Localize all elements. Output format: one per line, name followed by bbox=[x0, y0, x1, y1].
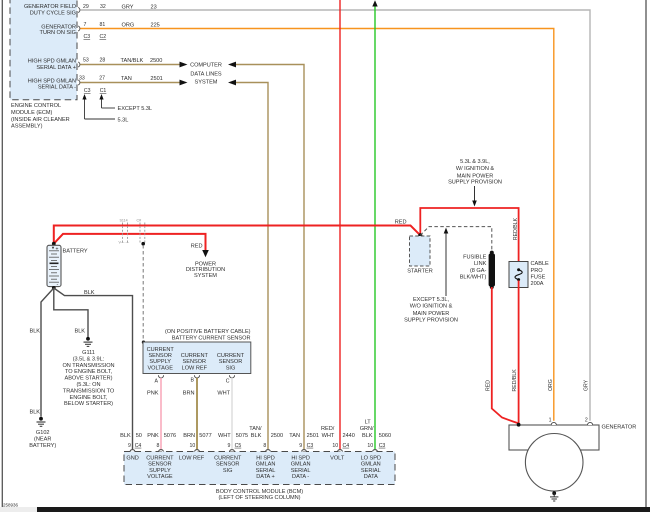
pin number 2 bbox=[585, 417, 588, 423]
svg-text:258936: 258936 bbox=[3, 503, 19, 508]
svg-text:LO SPD: LO SPD bbox=[361, 455, 381, 461]
svg-text:GRN/: GRN/ bbox=[360, 426, 374, 432]
label G102 (NEAR BATTERY) bbox=[29, 430, 56, 449]
svg-text:SERIAL DATA +: SERIAL DATA + bbox=[36, 65, 76, 71]
svg-text:5060: 5060 bbox=[379, 433, 391, 439]
svg-text:WHT: WHT bbox=[217, 390, 230, 396]
BCM pin 10 C4 bbox=[332, 443, 349, 449]
svg-text:C1: C1 bbox=[100, 88, 107, 94]
svg-text:LOW REF: LOW REF bbox=[179, 455, 205, 461]
svg-text:SENSOR: SENSOR bbox=[219, 359, 243, 365]
svg-text:MODULE (ECM): MODULE (ECM) bbox=[11, 110, 53, 116]
svg-text:ENGINE CONTROL: ENGINE CONTROL bbox=[11, 103, 61, 109]
svg-text:2501: 2501 bbox=[307, 433, 319, 439]
svg-text:8: 8 bbox=[157, 443, 160, 449]
svg-text:TURN ON SIG: TURN ON SIG bbox=[40, 30, 76, 36]
svg-text:TAN: TAN bbox=[289, 433, 300, 439]
svg-text:5.3L: 5.3L bbox=[118, 117, 129, 123]
label PNK bbox=[147, 390, 159, 396]
BCM pin 9 C3 bbox=[299, 443, 313, 449]
footer id number bbox=[3, 503, 19, 508]
svg-text:BRN: BRN bbox=[183, 390, 195, 396]
BCM label CURRENT SENSOR SUPPLY VOLTAGE bbox=[146, 455, 174, 480]
BCM pin 8 (tan/blk) bbox=[263, 443, 266, 449]
label CABLE PRO FUSE 200A bbox=[531, 261, 550, 287]
wire labels RED/WHT 2440 bbox=[321, 426, 355, 439]
label RED left of starter bbox=[395, 219, 407, 225]
svg-text:BRN: BRN bbox=[183, 433, 195, 439]
sensor connector arc pin C bbox=[229, 375, 234, 378]
wire LT GRN/BLK 5060 vertical to BCM bbox=[374, 4, 376, 449]
svg-text:9: 9 bbox=[299, 443, 302, 449]
svg-text:ENGINE BOLT,: ENGINE BOLT, bbox=[70, 395, 108, 401]
ECM connector arc pin 53 bbox=[78, 62, 80, 67]
svg-text:50: 50 bbox=[136, 433, 142, 439]
BCM connector arc lo spd bbox=[373, 450, 378, 452]
sensor label CURRENT SENSOR SUPPLY VOLTAGE bbox=[147, 347, 175, 371]
svg-text:FUSIBLE: FUSIBLE bbox=[463, 254, 486, 260]
svg-text:STARTER: STARTER bbox=[407, 268, 432, 274]
svg-text:32: 32 bbox=[100, 4, 106, 10]
svg-text:SERIAL: SERIAL bbox=[361, 468, 381, 474]
svg-text:8: 8 bbox=[263, 443, 266, 449]
BCM connector arc low ref bbox=[195, 450, 200, 452]
BCM label CURRENT SENSOR SIG bbox=[214, 455, 242, 474]
svg-text:SERIAL DATA -: SERIAL DATA - bbox=[38, 85, 76, 91]
svg-text:BATTERY CURRENT SENSOR: BATTERY CURRENT SENSOR bbox=[172, 336, 251, 342]
wire labels BLK 50 bbox=[120, 433, 142, 439]
svg-text:23: 23 bbox=[151, 4, 157, 10]
label WHT bbox=[217, 390, 230, 396]
svg-text:BELOW STARTER): BELOW STARTER) bbox=[64, 401, 113, 407]
svg-text:GENERATOR FIELD: GENERATOR FIELD bbox=[24, 4, 76, 10]
battery B1 bbox=[47, 245, 61, 287]
svg-text:TAN/BLK: TAN/BLK bbox=[121, 58, 144, 64]
wire TAN/BLK 2500 from ECM to computer data lines bbox=[80, 64, 182, 66]
svg-text:BLK: BLK bbox=[74, 328, 85, 334]
svg-text:BLK: BLK bbox=[29, 328, 40, 334]
generator case ground bbox=[550, 491, 558, 501]
svg-text:A: A bbox=[155, 378, 159, 384]
svg-text:SENSOR: SENSOR bbox=[183, 359, 207, 365]
svg-text:(LEFT OF STEERING COLUMN): (LEFT OF STEERING COLUMN) bbox=[218, 495, 300, 501]
svg-text:SUPPLY PROVISION: SUPPLY PROVISION bbox=[404, 318, 458, 324]
svg-text:C2: C2 bbox=[100, 34, 107, 40]
wire PNK 5076 sensor to BCM bbox=[160, 378, 162, 450]
wire labels WHT 5075 bbox=[218, 433, 248, 439]
callout arrow 5.3L bbox=[82, 94, 128, 123]
label RED/BLK upper rotated bbox=[513, 217, 519, 240]
pin numbers 29 32 GRY 23 bbox=[83, 4, 157, 11]
svg-text:HIGH SPD GMLAN: HIGH SPD GMLAN bbox=[28, 59, 76, 65]
node junction on lower red wire at connector bbox=[141, 242, 145, 246]
label FUSIBLE LINK (8 GA-BLK/WHT) bbox=[460, 254, 487, 280]
BCM pin 8 (pnk) bbox=[157, 443, 160, 449]
svg-text:RED: RED bbox=[485, 380, 491, 391]
svg-text:2440: 2440 bbox=[343, 433, 355, 439]
wire labels BRN 5077 bbox=[183, 433, 211, 439]
BCM label LOW REF bbox=[179, 455, 205, 461]
label 5.3L & 3.9L W/ IGNITION & MAIN POWER SUPPLY PROVISION bbox=[448, 159, 502, 185]
wire labels PNK 5076 bbox=[147, 433, 176, 439]
svg-text:LOW REF: LOW REF bbox=[182, 365, 208, 371]
wire RED/BLK fuse to generator bbox=[518, 281, 520, 424]
svg-text:TAN: TAN bbox=[121, 76, 132, 82]
svg-text:DATA -: DATA - bbox=[292, 474, 309, 480]
pin numbers 33 27 TAN 2501 bbox=[79, 76, 163, 83]
svg-text:HIGH SPD GMLAN: HIGH SPD GMLAN bbox=[28, 78, 76, 84]
cable pro fuse 200A box bbox=[509, 262, 528, 288]
wire RED fusible link to generator bbox=[492, 287, 519, 423]
svg-text:LINK: LINK bbox=[474, 261, 487, 267]
svg-text:COMPUTER: COMPUTER bbox=[190, 63, 222, 69]
svg-text:DUTY CYCLE SIG: DUTY CYCLE SIG bbox=[30, 11, 76, 17]
fusible link F1 bbox=[489, 251, 495, 289]
generator rotor circle bbox=[525, 434, 583, 492]
svg-text:VOLTAGE: VOLTAGE bbox=[147, 474, 173, 480]
wire GRY 23 from ECM to generator pin 2 bbox=[80, 10, 591, 421]
ground G111 bbox=[84, 337, 93, 347]
BCM pin 10 C3 bbox=[367, 443, 385, 449]
wire WHT 5075 sensor to BCM bbox=[231, 378, 233, 450]
ECM connector arc pin 29 bbox=[78, 8, 80, 13]
svg-text:GMLAN: GMLAN bbox=[256, 462, 276, 468]
svg-text:5076: 5076 bbox=[164, 433, 176, 439]
label BLK on G111 wire bbox=[74, 328, 85, 334]
BCM pin 9 C5 bbox=[228, 443, 242, 449]
label BLK on G102 wire upper bbox=[29, 328, 40, 334]
svg-text:WHT: WHT bbox=[218, 433, 231, 439]
BCM module box bbox=[124, 452, 395, 485]
wire BLK battery to BCM GND bbox=[54, 288, 133, 449]
label STARTER bbox=[407, 268, 432, 274]
svg-text:VOLTAGE: VOLTAGE bbox=[147, 365, 173, 371]
svg-text:(NEAR: (NEAR bbox=[34, 436, 51, 442]
ECM connector arc pin 7 bbox=[78, 26, 80, 31]
svg-text:SUPPLY: SUPPLY bbox=[149, 359, 171, 365]
callout arrow EXCEPT 5.3L bbox=[99, 94, 152, 112]
svg-text:10: 10 bbox=[190, 443, 196, 449]
ECM pin labels GENERATOR FIELD DUTY CYCLE SIG bbox=[24, 4, 76, 17]
label RED at power distribution bbox=[191, 244, 203, 250]
svg-text:W/ IGNITION &: W/ IGNITION & bbox=[456, 166, 495, 172]
svg-text:DATA +: DATA + bbox=[256, 474, 274, 480]
svg-text:7: 7 bbox=[84, 22, 87, 28]
BCM connector arc volt bbox=[338, 450, 343, 452]
svg-text:SERIAL: SERIAL bbox=[256, 468, 276, 474]
svg-text:SENSOR: SENSOR bbox=[148, 353, 172, 359]
svg-text:+: + bbox=[56, 247, 59, 253]
svg-text:(ON POSITIVE BATTERY CABLE): (ON POSITIVE BATTERY CABLE) bbox=[165, 329, 251, 335]
svg-text:BLK: BLK bbox=[362, 433, 373, 439]
svg-text:C5: C5 bbox=[235, 443, 242, 449]
battery red wire to power distribution bbox=[54, 234, 206, 252]
sensor label CURRENT SENSOR SIG bbox=[217, 353, 245, 371]
BCM connector arc hi spd - bbox=[302, 450, 307, 452]
svg-text:FUSE: FUSE bbox=[531, 274, 546, 280]
connector designators C3 C1 bbox=[84, 88, 107, 94]
svg-text:5077: 5077 bbox=[199, 433, 211, 439]
wire labels TAN/BLK 2500 bbox=[249, 426, 283, 439]
svg-text:TAN/: TAN/ bbox=[249, 426, 262, 432]
svg-text:5.3L & 3.9L,: 5.3L & 3.9L, bbox=[460, 159, 490, 165]
svg-text:TRANSMISSION TO: TRANSMISSION TO bbox=[63, 388, 115, 394]
label BLK on BCM ground wire bbox=[84, 290, 95, 296]
svg-text:HI SPD: HI SPD bbox=[256, 455, 275, 461]
svg-text:LT: LT bbox=[365, 419, 372, 425]
svg-text:81: 81 bbox=[100, 22, 106, 28]
svg-text:C3: C3 bbox=[307, 443, 314, 449]
wire BLK battery to G111 bbox=[54, 288, 88, 337]
svg-text:ASSEMBLY): ASSEMBLY) bbox=[11, 123, 43, 129]
svg-text:V— —: V— — bbox=[119, 240, 130, 244]
svg-text:(INSIDE AIR CLEANER: (INSIDE AIR CLEANER bbox=[11, 117, 70, 123]
BCM connector arc hi spd + bbox=[266, 450, 271, 452]
starter ST1 box bbox=[410, 236, 431, 266]
svg-text:GRY: GRY bbox=[122, 4, 134, 10]
svg-text:(3.5L & 3.9L:: (3.5L & 3.9L: bbox=[73, 356, 105, 362]
node junction battery positive bbox=[52, 242, 56, 246]
fuse element symbol bbox=[515, 268, 522, 281]
svg-text:CURRENT: CURRENT bbox=[217, 353, 245, 359]
node junction battery negative bbox=[52, 286, 56, 290]
svg-text:C#: C# bbox=[137, 219, 142, 223]
svg-text:ABOVE STARTER): ABOVE STARTER) bbox=[64, 376, 112, 382]
callout arrow down to red feed bbox=[472, 186, 477, 207]
label GRY rotated at generator bbox=[584, 379, 590, 391]
svg-text:2500: 2500 bbox=[150, 58, 162, 64]
svg-text:C3: C3 bbox=[84, 34, 91, 40]
svg-text:RED/BLK: RED/BLK bbox=[513, 217, 519, 240]
svg-text:SYSTEM: SYSTEM bbox=[194, 273, 217, 279]
svg-text:DATA LINES: DATA LINES bbox=[190, 71, 222, 77]
arrow into computer data lines system (left upper) bbox=[180, 62, 188, 68]
svg-text:1: 1 bbox=[549, 417, 552, 423]
wire TAN 2501 from ECM to computer data lines bbox=[80, 82, 182, 84]
BCM label HI SPD GMLAN SERIAL DATA - bbox=[291, 455, 311, 480]
node junction at sensor box corner bbox=[142, 341, 145, 344]
svg-text:CURRENT: CURRENT bbox=[147, 347, 175, 353]
wire labels LT GRN/BLK 5060 bbox=[360, 419, 391, 439]
BCM label HI SPD GMLAN SERIAL DATA + bbox=[256, 455, 276, 480]
svg-text:BLK: BLK bbox=[251, 433, 262, 439]
footer light strip bbox=[0, 507, 37, 512]
svg-text:BATTERY): BATTERY) bbox=[29, 443, 56, 449]
svg-text:5075: 5075 bbox=[236, 433, 248, 439]
svg-text:GND: GND bbox=[126, 455, 138, 461]
ground G102 bbox=[37, 417, 46, 426]
label G111 location text bbox=[62, 350, 114, 407]
pin number 1 bbox=[549, 417, 552, 423]
wire RED/WHT 2440 vertical to BCM VOLT bbox=[339, 0, 341, 449]
BCM label GND bbox=[126, 455, 138, 461]
generator G1 housing bbox=[509, 425, 599, 450]
svg-text:RED/: RED/ bbox=[321, 426, 335, 432]
svg-text:BATTERY: BATTERY bbox=[63, 248, 88, 254]
generator pin 2 connector arc bbox=[588, 422, 593, 425]
wire RED starter feed loop bbox=[420, 208, 518, 269]
svg-text:C4: C4 bbox=[343, 443, 350, 449]
svg-text:B: B bbox=[191, 378, 195, 384]
svg-text:29: 29 bbox=[83, 4, 89, 10]
svg-text:ON TRANSMISSION: ON TRANSMISSION bbox=[62, 363, 114, 369]
svg-text:SERIAL: SERIAL bbox=[291, 468, 311, 474]
page right border bbox=[645, 0, 647, 507]
pin numbers 7 81 ORG 225 bbox=[84, 22, 160, 29]
label BRN bbox=[183, 390, 195, 396]
svg-text:C3: C3 bbox=[84, 88, 91, 94]
svg-text:SUPPLY: SUPPLY bbox=[149, 468, 171, 474]
callout arrow up EXCEPT 5.3L W/O IGNITION bbox=[444, 228, 449, 296]
node junction generator B+ bbox=[517, 423, 521, 427]
wire BLK battery to G102 bbox=[41, 288, 54, 417]
svg-text:VOLT: VOLT bbox=[330, 455, 345, 461]
sensor label CURRENT SENSOR LOW REF bbox=[181, 353, 209, 371]
svg-text:2500: 2500 bbox=[271, 433, 283, 439]
arrow into computer data lines system (right upper) bbox=[228, 62, 236, 68]
svg-text:C4: C4 bbox=[135, 443, 142, 449]
svg-text:ORG: ORG bbox=[122, 22, 135, 28]
svg-text:CABLE: CABLE bbox=[531, 261, 550, 267]
wire ORG 225 from ECM to generator pin 1 bbox=[80, 29, 554, 421]
svg-text:BLK/WHT): BLK/WHT) bbox=[460, 275, 487, 281]
node COMPUTER DATA LINES SYSTEM bbox=[190, 63, 222, 86]
svg-text:ORG: ORG bbox=[548, 379, 554, 391]
battery B+ red wire to starter bbox=[54, 226, 421, 244]
node POWER DISTRIBUTION SYSTEM bbox=[186, 261, 225, 278]
svg-text:(8 GA-: (8 GA- bbox=[470, 268, 487, 274]
svg-text:2501: 2501 bbox=[150, 76, 162, 82]
svg-text:-: - bbox=[57, 282, 59, 288]
wire BRN 5077 sensor to BCM bbox=[196, 378, 198, 450]
connector designators C3 C2 bbox=[84, 34, 107, 40]
svg-text:GRY: GRY bbox=[584, 379, 590, 391]
svg-text:33: 33 bbox=[79, 76, 85, 82]
svg-text:WHT: WHT bbox=[322, 433, 335, 439]
svg-text:28: 28 bbox=[100, 57, 106, 63]
sensor connector arc pin B bbox=[194, 375, 199, 378]
svg-text:S114: S114 bbox=[120, 219, 128, 223]
svg-text:225: 225 bbox=[151, 22, 160, 28]
sensor connector arc pin A bbox=[158, 375, 163, 378]
svg-text:CURRENT: CURRENT bbox=[181, 353, 209, 359]
wire TAN/BLK 2500 from BCM up to computer data lines bbox=[235, 83, 268, 450]
svg-text:DATA: DATA bbox=[364, 474, 378, 480]
BCM connector arc sensor sig bbox=[230, 450, 235, 452]
svg-text:C3: C3 bbox=[379, 443, 386, 449]
dashed lead from junction to battery current sensor bbox=[142, 245, 144, 341]
label BATTERY bbox=[63, 248, 88, 254]
svg-text:(5.3L: ON: (5.3L: ON bbox=[76, 382, 100, 388]
svg-text:PNK: PNK bbox=[147, 390, 159, 396]
ECM pin labels HIGH SPD GMLAN SERIAL DATA + bbox=[28, 59, 76, 71]
svg-text:G111: G111 bbox=[82, 350, 95, 356]
arrow up on green wire bbox=[372, 0, 377, 6]
BCM label VOLT bbox=[330, 455, 345, 461]
svg-text:EXCEPT 5.3L: EXCEPT 5.3L bbox=[118, 106, 153, 112]
label GENERATOR bbox=[602, 425, 637, 431]
svg-text:HI SPD: HI SPD bbox=[291, 455, 310, 461]
inline connector C100 dashes on red wires bbox=[119, 219, 145, 245]
svg-text:10: 10 bbox=[332, 443, 338, 449]
BCM pin 10 (brn) bbox=[190, 443, 196, 449]
svg-text:RED/BLK: RED/BLK bbox=[512, 369, 518, 392]
label EXCEPT 5.3L W/O IGNITION & MAIN POWER SUPPLY PROVISION bbox=[404, 297, 458, 324]
label RED rotated at generator bbox=[485, 380, 491, 391]
svg-text:EXCEPT 5.3L,: EXCEPT 5.3L, bbox=[413, 297, 450, 303]
wire TAN 2501 from BCM up to computer data lines bbox=[235, 65, 304, 450]
wire labels TAN 2501 bbox=[289, 433, 319, 439]
generator pin 1 connector arc bbox=[551, 422, 556, 425]
arrow into computer data lines system (left lower) bbox=[180, 80, 188, 86]
label ORG rotated at generator bbox=[548, 379, 554, 391]
page left border bbox=[1, 0, 3, 507]
arrow down to power distribution system bbox=[202, 250, 209, 257]
svg-text:2: 2 bbox=[585, 417, 588, 423]
svg-text:BLK: BLK bbox=[120, 433, 131, 439]
BCM pin 9 C4 bbox=[128, 443, 141, 449]
svg-text:PRO: PRO bbox=[531, 268, 544, 274]
svg-text:C: C bbox=[226, 378, 230, 384]
svg-text:PNK: PNK bbox=[147, 433, 159, 439]
svg-text:BLK: BLK bbox=[29, 410, 40, 416]
svg-text:10: 10 bbox=[367, 443, 373, 449]
svg-text:CURRENT: CURRENT bbox=[214, 455, 242, 461]
svg-text:SIG: SIG bbox=[226, 365, 236, 371]
label BLK on G102 wire lower bbox=[29, 410, 40, 416]
svg-text:9: 9 bbox=[228, 443, 231, 449]
svg-text:BODY CONTROL MODULE (BCM): BODY CONTROL MODULE (BCM) bbox=[216, 489, 303, 495]
ECM caption ENGINE CONTROL MODULE bbox=[11, 103, 70, 129]
pin letters A B C bbox=[155, 378, 230, 385]
BCM connector arc GND bbox=[130, 450, 135, 452]
svg-text:SIG: SIG bbox=[223, 468, 233, 474]
svg-text:CURRENT: CURRENT bbox=[146, 455, 174, 461]
svg-text:SYSTEM: SYSTEM bbox=[195, 80, 218, 86]
svg-text:TO ENGINE BOLT,: TO ENGINE BOLT, bbox=[65, 369, 113, 375]
svg-text:200A: 200A bbox=[531, 281, 544, 287]
svg-text:SUPPLY PROVISION: SUPPLY PROVISION bbox=[448, 179, 502, 185]
svg-text:RED: RED bbox=[395, 219, 407, 225]
battery current sensor box bbox=[143, 342, 251, 374]
node junction at starter bbox=[418, 233, 422, 237]
dashed wire from starter junction to fusible link bbox=[420, 227, 492, 251]
svg-text:SENSOR: SENSOR bbox=[216, 462, 240, 468]
svg-text:SENSOR: SENSOR bbox=[148, 462, 172, 468]
svg-text:GMLAN: GMLAN bbox=[361, 462, 381, 468]
BCM caption bbox=[216, 489, 303, 501]
svg-text:GMLAN: GMLAN bbox=[291, 462, 311, 468]
label RED/BLK rotated at generator bbox=[512, 369, 518, 392]
ECM connector arc pin 33 bbox=[78, 80, 80, 85]
svg-text:GENERATOR: GENERATOR bbox=[602, 425, 637, 431]
ECM pin labels HIGH SPD GMLAN SERIAL DATA - bbox=[28, 78, 76, 90]
ECM pin labels GENERATOR TURN ON SIG bbox=[40, 24, 76, 36]
svg-text:27: 27 bbox=[99, 76, 105, 82]
arrow into computer data lines system (right lower) bbox=[228, 80, 236, 86]
svg-text:MAIN POWER: MAIN POWER bbox=[413, 311, 449, 317]
svg-text:RED: RED bbox=[191, 244, 203, 250]
svg-text:G102: G102 bbox=[36, 430, 50, 436]
svg-text:53: 53 bbox=[83, 57, 89, 63]
svg-text:9: 9 bbox=[128, 443, 131, 449]
label (ON POSITIVE BATTERY CABLE) BATTERY CURRENT SENSOR bbox=[165, 329, 251, 342]
BCM connector arc supply voltage bbox=[159, 450, 164, 452]
pin numbers 53 28 TAN/BLK 2500 bbox=[83, 57, 162, 64]
svg-text:W/O IGNITION &: W/O IGNITION & bbox=[410, 304, 453, 310]
BCM label LO SPD GMLAN SERIAL DATA bbox=[361, 455, 381, 480]
svg-text:BLK: BLK bbox=[84, 290, 95, 296]
